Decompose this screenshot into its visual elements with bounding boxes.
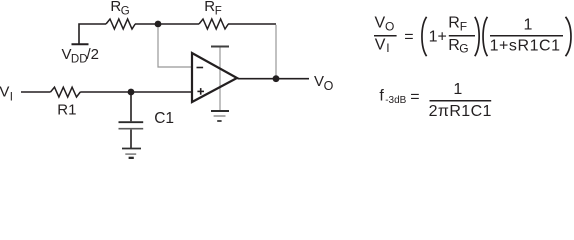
svg-text:f: f xyxy=(379,87,384,104)
svg-text:1: 1 xyxy=(453,81,462,98)
label RG xyxy=(110,0,129,18)
junction node at R1/C1 xyxy=(128,89,135,96)
svg-text:I: I xyxy=(386,41,389,55)
svg-text:V: V xyxy=(375,14,386,31)
svg-text:1+sR1C1: 1+sR1C1 xyxy=(490,38,561,55)
op-amp noninverting pin plus sign xyxy=(197,88,204,95)
junction node at RG/RF/inverting input xyxy=(155,21,162,28)
svg-text:V: V xyxy=(375,36,386,53)
wire feedback vertical (thin) xyxy=(275,25,277,76)
power terminal V+ bar above op-amp xyxy=(211,46,229,48)
label VI xyxy=(0,84,13,104)
wire RF to right corner xyxy=(228,23,276,25)
svg-text:=: = xyxy=(404,29,413,46)
svg-text:C1: C1 xyxy=(154,110,174,127)
equation 2: f-3dB corner frequency xyxy=(379,81,491,120)
svg-text:R: R xyxy=(204,0,215,15)
wire inverting input from junction (thin) xyxy=(158,27,191,67)
svg-text:R: R xyxy=(448,14,460,31)
resistor R1 xyxy=(51,87,81,97)
capacitor C1 xyxy=(119,122,144,129)
svg-text:G: G xyxy=(459,42,468,56)
wire op-amp supply vertical (thin) xyxy=(219,47,221,110)
svg-text:O: O xyxy=(324,79,334,93)
op-amp U1 triangle xyxy=(192,53,237,102)
svg-text:-3dB: -3dB xyxy=(385,95,406,106)
svg-text:F: F xyxy=(460,19,467,33)
label VO xyxy=(314,73,334,93)
power terminal VDD/2 bar xyxy=(72,43,89,45)
label RF xyxy=(204,0,221,18)
svg-text:R: R xyxy=(448,37,460,54)
junction node at output/feedback xyxy=(273,75,280,82)
wire junction down to C1 xyxy=(130,92,132,121)
ground below C1 xyxy=(122,149,141,158)
label VDD/2 xyxy=(62,46,100,66)
svg-text:F: F xyxy=(215,6,222,18)
label R1 xyxy=(57,102,76,119)
svg-text:1+: 1+ xyxy=(429,29,447,46)
wire op-amp output xyxy=(238,78,310,80)
wire R1 to noninverting input xyxy=(80,91,192,93)
svg-text:1: 1 xyxy=(524,16,533,33)
svg-text:/2: /2 xyxy=(87,46,100,63)
op-amp inverting pin minus sign xyxy=(197,67,204,69)
wire C1 to ground xyxy=(130,130,132,148)
label C1 xyxy=(154,110,174,127)
svg-text:V: V xyxy=(0,84,9,101)
wire RG to RF top rail xyxy=(135,23,199,25)
svg-text:I: I xyxy=(10,91,13,103)
svg-text:O: O xyxy=(385,19,394,33)
resistor RF xyxy=(199,19,228,29)
equation 1: VO/VI transfer function xyxy=(374,14,571,56)
svg-text:V: V xyxy=(314,73,324,90)
svg-text:DD: DD xyxy=(71,54,88,66)
svg-text:=: = xyxy=(410,88,419,105)
resistor RG xyxy=(106,19,135,29)
wire VI to R1 xyxy=(21,91,51,93)
svg-text:2πR1C1: 2πR1C1 xyxy=(429,103,492,120)
node A: V_DD/2 feed corner wire xyxy=(79,24,106,44)
ground below op-amp xyxy=(211,111,229,121)
svg-text:G: G xyxy=(121,6,130,18)
svg-text:R1: R1 xyxy=(57,102,76,119)
